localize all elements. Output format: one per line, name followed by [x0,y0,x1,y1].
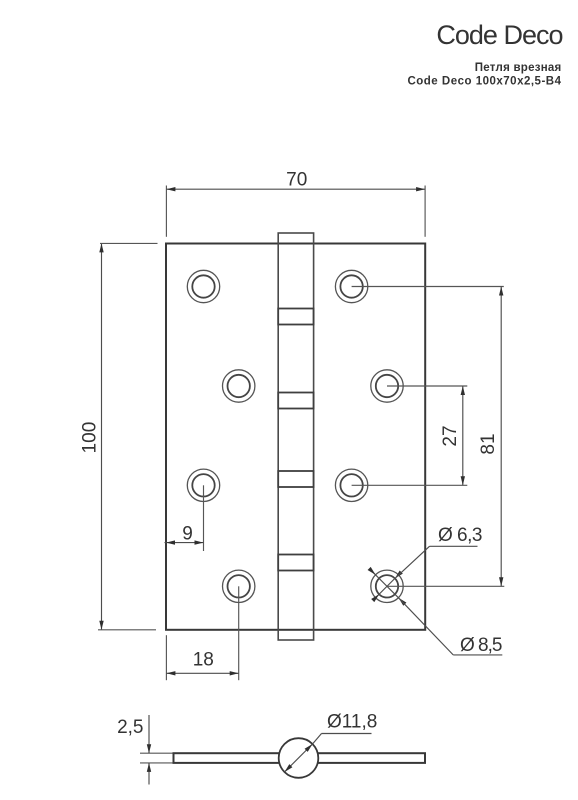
svg-text:18: 18 [193,650,214,671]
dim 18 dimension line [166,672,238,674]
callout Ø8,5 leader [399,598,454,655]
hole L2 [223,370,255,402]
dim 70 extension line left [165,186,167,237]
dim 9 leader from hole L3 [203,485,205,551]
svg-text:2,5: 2,5 [117,717,143,738]
dim 27 extension line from hole R3 [352,484,468,486]
dim 70 arrow left [166,187,175,191]
svg-text:70: 70 [286,170,307,191]
dim 2,5 arrow up [147,763,151,772]
callout Ø8,5 diameter line through hole R4 outer circle [370,569,399,598]
hole L3 [187,469,219,501]
dim 18 extension line left [165,635,167,680]
hinge barrel [278,233,313,640]
svg-text:Петля врезная: Петля врезная [475,62,562,74]
dim 9 dimension line [165,542,204,544]
callout Ø11,8 underline [322,733,372,735]
dim 81 extension line from hole R4 [387,585,504,587]
callout Ø8,5 arrow NW [368,567,377,576]
hole R2 [371,370,403,402]
dim 18 arrow left [166,671,175,675]
barrel joint band 1 [278,309,313,325]
dim 27 dimension line [462,386,464,485]
dim 2,5 arrow down [147,744,151,753]
svg-text:Ø 6,3: Ø 6,3 [438,525,482,546]
callout Ø8,5 arrow SE [397,596,406,605]
barrel joint band 2 [278,393,313,409]
dim 81 dimension line [500,287,502,587]
dim 9 arrow left [166,540,175,544]
callout Ø11,8 arrow NE [305,742,314,751]
dim 100 arrow top [99,243,103,252]
dim 9 arrow right [195,540,204,544]
dim 27 arrow top [461,386,465,395]
hole L4 [223,570,255,602]
side view thickness extension line top [140,752,176,754]
svg-text:Code Deco: Code Deco [436,20,562,50]
svg-text:27: 27 [440,425,461,446]
svg-text:9: 9 [182,523,193,544]
callout Ø11,8 leader [313,734,322,745]
callout Ø6,3 arrow NE [393,570,402,579]
svg-text:81: 81 [478,433,499,454]
callout Ø11,8 arrow SW [283,764,292,773]
dim 81 arrow bottom [499,577,503,586]
side view plate [174,753,426,763]
dim 100 extension line top [100,242,158,244]
dim 70 extension line right [424,186,426,237]
dim 100 extension line bottom [98,629,156,631]
hole R4 [371,570,403,602]
svg-text:Code Deco 100x70x2,5-B4: Code Deco 100x70x2,5-B4 [407,76,561,88]
dim 18 leader from hole L4 [238,586,240,680]
dim 100 dimension line [101,243,103,629]
hinge plate outline [166,244,425,630]
svg-text:100: 100 [80,422,101,454]
hole L1 [187,270,219,302]
dim 18 arrow right [230,671,239,675]
callout Ø6,3 diameter line through hole R4 inner circle [373,578,395,600]
dim 100 arrow bottom [99,621,103,630]
dim 70 arrow right [416,187,425,191]
dim 2,5 dimension line upper [148,715,150,753]
callout Ø6,3 arrow SW [371,593,380,602]
dim 81 extension line from hole R1 [352,286,504,288]
callout Ø11,8 diameter line inside circle [285,744,313,772]
hole R3 [335,469,367,501]
dim 70 dimension line [166,188,425,190]
dim 81 arrow top [499,287,503,296]
hole R1 [335,270,367,302]
callout Ø8,5 underline [453,654,502,656]
dim 27 arrow bottom [461,476,465,485]
callout Ø6,3 leader [395,546,430,578]
barrel joint band 4 [278,555,313,571]
svg-text:Ø11,8: Ø11,8 [327,712,377,733]
dim 2,5 dimension line lower [148,763,150,785]
side view thickness extension line bottom [140,762,176,764]
barrel joint band 3 [278,471,313,487]
callout Ø6,3 underline [430,545,478,547]
side view barrel circle [279,738,319,778]
svg-text:Ø 8,5: Ø 8,5 [460,635,502,656]
dim 27 extension line from hole R2 [387,385,467,387]
